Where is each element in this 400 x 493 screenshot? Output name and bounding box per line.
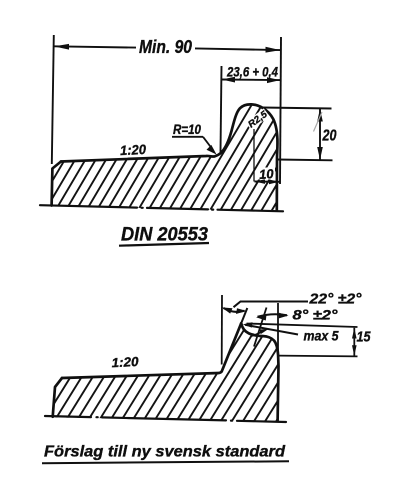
arc arrow 22°: [224, 308, 245, 312]
svg-text:8° ±2°: 8° ±2°: [293, 308, 339, 323]
dimension 15 : top extension line: [247, 324, 358, 328]
arrowhead top of 20: [317, 109, 323, 122]
8° slanted construction line: [254, 308, 267, 347]
profile 2 left edge with chamfer: [53, 378, 62, 417]
dimension 23,6+0,4 : dimension line: [222, 79, 281, 82]
leader of max 5: [245, 325, 298, 335]
title 2 underline: [42, 461, 289, 463]
profile 1 outline: top surface + hump + right edge: [61, 104, 277, 210]
leader of 22° label: [234, 302, 309, 308]
profile 2 outline: top surface + peak + right side: [62, 323, 241, 378]
arrowhead right of 10: [269, 180, 279, 185]
svg-text:R=10: R=10: [173, 122, 201, 137]
hatching profile 1: [20, 98, 348, 218]
faint pencil slash at 20 dim top arrow: [314, 112, 323, 132]
dimension 20 : top extension line: [262, 108, 332, 109]
label 10: [257, 168, 275, 180]
svg-text:1:20: 1:20: [111, 354, 140, 370]
dimension 15 : dimension line: [353, 328, 355, 356]
arrowhead of max 5 leader: [243, 322, 253, 327]
arrowhead of R=10 leader: [207, 145, 217, 155]
8° vertical construction line: [277, 303, 279, 356]
hatching profile 2: [19, 318, 351, 424]
arrowhead top of 15: [352, 328, 357, 339]
dimension 23,6+0,4 : left extension line: [221, 66, 222, 152]
title 1 underline: [119, 243, 209, 246]
label R2,5 rotated on hump: [245, 108, 270, 131]
svg-text:23,6 + 0,4: 23,6 + 0,4: [226, 65, 278, 80]
dimension 10 : left extension line from R2,5: [253, 129, 255, 182]
svg-text:20: 20: [322, 128, 337, 145]
dimension 20 : dimension line: [319, 109, 321, 161]
arrowhead left of 10: [255, 179, 265, 184]
dimension Min. 90 : dimension line: [54, 46, 136, 47]
svg-text:10: 10: [259, 166, 275, 182]
arc arrow 8°: [258, 314, 288, 317]
arrowhead bottom of 20: [317, 147, 323, 160]
profile 1 left edge with chamfer: [52, 162, 61, 206]
small arrow at crown dip: [252, 332, 263, 337]
arrowhead bottom of 15: [352, 345, 357, 356]
dimension Min. 90 : right extension line (shared with 23,6): [280, 37, 281, 184]
arrowhead right of 23,6: [267, 77, 280, 83]
dimension Min. 90 : left extension line: [52, 35, 54, 164]
svg-text:22° ±2°: 22° ±2°: [308, 291, 362, 308]
arrowhead left of Min.90: [54, 44, 69, 50]
svg-text:1:20: 1:20: [120, 142, 147, 158]
left vertical reference line (22°): [221, 295, 223, 365]
slope construction extension above apex: [241, 308, 247, 323]
base chain line 1: [40, 205, 283, 211]
dimension 10 : dimension line: [255, 181, 280, 183]
svg-text:15: 15: [357, 329, 372, 346]
svg-text:max 5: max 5: [304, 329, 339, 344]
arrowhead left of 23,6: [222, 77, 235, 83]
arrowhead right of Min.90: [266, 47, 281, 53]
base chain line 2: [45, 416, 286, 422]
dimension 15 : bottom extension line: [279, 355, 358, 358]
svg-text:Min. 90: Min. 90: [139, 37, 192, 57]
svg-text:Förslag till ny svensk standar: Förslag till ny svensk standard: [44, 444, 286, 461]
dimension 20 : bottom extension line: [277, 159, 333, 162]
